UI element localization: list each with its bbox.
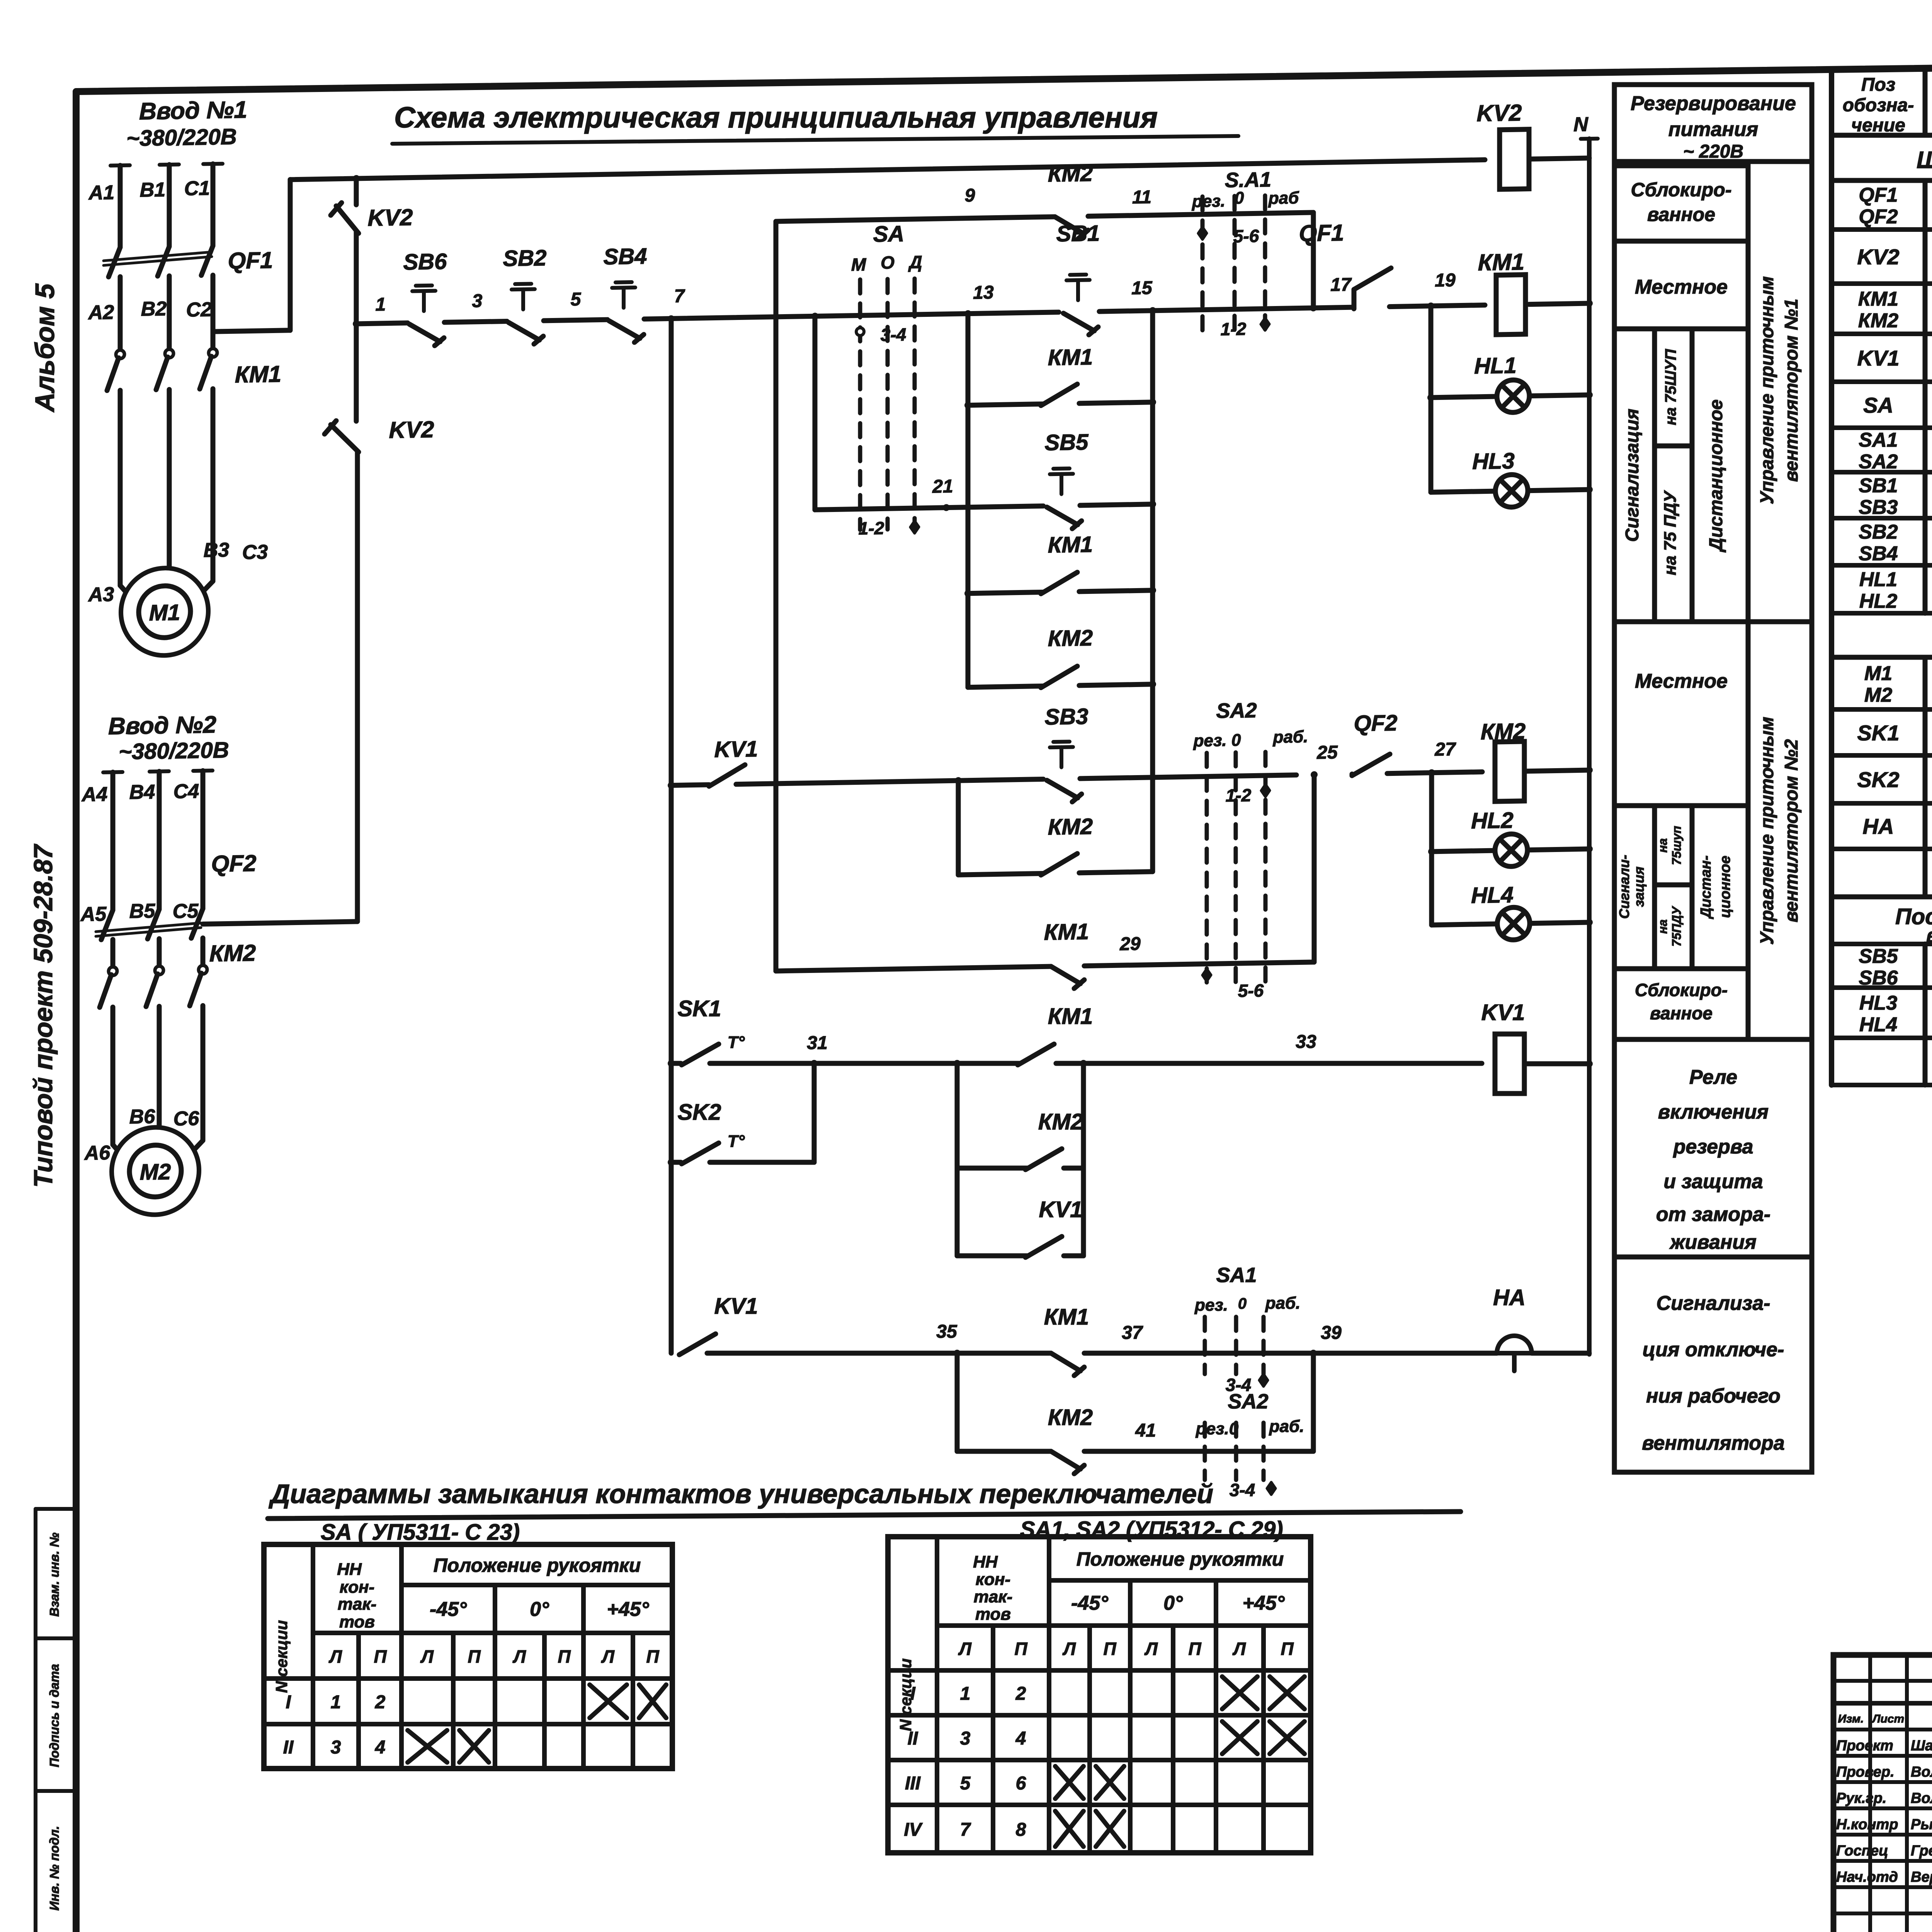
- function box Местное: [1614, 241, 1748, 329]
- wire phase Б4: [150, 769, 169, 774]
- svg-text:33: 33: [1296, 1032, 1316, 1052]
- svg-text:5-6: 5-6: [1238, 980, 1264, 1001]
- svg-text:О: О: [881, 252, 895, 273]
- contactor KM1 main contacts: [116, 350, 124, 359]
- svg-text:1-2: 1-2: [859, 518, 884, 538]
- wire HL3 rung: [1431, 491, 1495, 492]
- wire vertical from node 13: [966, 314, 971, 687]
- svg-text:Изм.: Изм.: [1838, 1713, 1864, 1725]
- function box на 75ПДУ 2: [1655, 885, 1692, 969]
- parts row KV2: [1832, 281, 1932, 286]
- svg-text:В2: В2: [141, 298, 167, 320]
- svg-text:тов: тов: [339, 1612, 375, 1631]
- svg-text:21: 21: [932, 476, 953, 497]
- svg-text:КМ1: КМ1: [1048, 344, 1093, 370]
- svg-text:Сигнализа-: Сигнализа-: [1656, 1292, 1770, 1315]
- svg-text:В4: В4: [129, 781, 155, 804]
- svg-text:KV2: KV2: [368, 204, 413, 231]
- svg-text:А4: А4: [81, 783, 108, 806]
- coil KV1: [1495, 1034, 1524, 1094]
- svg-text:KV2: KV2: [1477, 100, 1522, 126]
- wires to motor M2: [111, 1007, 116, 1145]
- svg-text:QF2: QF2: [1859, 206, 1898, 228]
- contact KM1: [1051, 1353, 1080, 1371]
- svg-text:7: 7: [674, 286, 685, 306]
- svg-text:С1: С1: [184, 177, 210, 200]
- svg-text:КМ2: КМ2: [209, 940, 256, 966]
- svg-text:Госпец: Госпец: [1836, 1843, 1888, 1859]
- svg-text:KV1: KV1: [714, 736, 758, 762]
- breaker QF2 crossbar: [96, 928, 201, 937]
- svg-text:вентилятором №1: вентилятором №1: [1781, 299, 1802, 482]
- svg-text:HL2: HL2: [1859, 590, 1897, 612]
- pushbutton SB6: [409, 323, 440, 342]
- svg-text:3: 3: [331, 1737, 341, 1758]
- svg-text:КМ2: КМ2: [1038, 1109, 1083, 1134]
- svg-text:1: 1: [376, 294, 386, 315]
- svg-text:KV1: KV1: [1039, 1197, 1083, 1222]
- parts row SВ1/SВ3: [1832, 516, 1932, 520]
- svg-text:Альбом 5: Альбом 5: [30, 283, 60, 413]
- svg-text:резерва: резерва: [1673, 1136, 1753, 1158]
- svg-text:Сигнали-: Сигнали-: [1616, 855, 1632, 919]
- svg-text:SВ2: SВ2: [1859, 521, 1898, 543]
- svg-text:вентилятором №2: вентилятором №2: [1781, 739, 1802, 922]
- svg-text:рез.: рез.: [1194, 1296, 1228, 1315]
- svg-text:SK2: SK2: [1857, 767, 1900, 792]
- parts row SK1: [1832, 753, 1932, 758]
- svg-text:П: П: [468, 1646, 481, 1667]
- svg-text:Л: Л: [1232, 1639, 1246, 1659]
- wire phase В5: [201, 938, 206, 966]
- svg-text:0°: 0°: [530, 1598, 549, 1621]
- svg-text:~380/220В: ~380/220В: [126, 124, 236, 151]
- wire left vertical (node 7 down): [669, 318, 674, 1353]
- svg-text:Волкова: Волкова: [1911, 1764, 1932, 1780]
- wire rung 41 drop: [955, 1353, 960, 1451]
- wire main control rail: [356, 323, 408, 324]
- svg-text:Типовой проект 509-28.87: Типовой проект 509-28.87: [29, 844, 58, 1188]
- contact KV1: [1026, 1236, 1062, 1257]
- wire reserve feed to C5: [203, 922, 357, 924]
- parts row HL1/HL2: [1832, 611, 1932, 616]
- svg-text:так-: так-: [974, 1587, 1013, 1606]
- svg-text:П: П: [1188, 1639, 1201, 1659]
- contact QF2 (aux): [1311, 771, 1318, 778]
- svg-text:HL3: HL3: [1472, 448, 1515, 474]
- svg-text:Л: Л: [420, 1646, 434, 1667]
- title block rows: [1833, 1701, 1932, 1706]
- svg-text:HL2: HL2: [1471, 808, 1514, 833]
- svg-text:так-: так-: [338, 1595, 377, 1614]
- svg-text:Нач.отд: Нач.отд: [1836, 1869, 1898, 1885]
- svg-text:П: П: [1281, 1639, 1294, 1659]
- parts row KV1: [1832, 379, 1932, 384]
- function box на 75 ПДУ: [1655, 446, 1692, 622]
- wire rung KV1d: [957, 1253, 1028, 1259]
- wire node19 lamp branch: [1429, 306, 1434, 492]
- wire phase В2: [211, 275, 216, 349]
- pushbutton SB4: [609, 320, 640, 339]
- svg-text:А5: А5: [80, 903, 107, 926]
- svg-text:раб.: раб.: [1265, 1294, 1301, 1313]
- svg-text:SВ2: SВ2: [503, 245, 547, 271]
- wire bus to N: [1529, 158, 1589, 159]
- parts table 2 column lines: [1923, 944, 1928, 1085]
- wire rung KM1b: [968, 592, 1043, 593]
- wire phase Б1: [160, 163, 179, 167]
- contactor KM2 main contacts: [109, 967, 117, 975]
- wire phase А5: [111, 939, 116, 967]
- function box Реле включения резерва: [1614, 1039, 1812, 1257]
- svg-text:SА1: SА1: [1859, 429, 1898, 451]
- svg-text:В5: В5: [129, 900, 156, 923]
- svg-text:SА ( УП5311- С 23): SА ( УП5311- С 23): [321, 1520, 520, 1545]
- svg-text:31: 31: [807, 1033, 827, 1053]
- switch SA1 dashed lines (lower): [1203, 1317, 1207, 1374]
- wire phase Б2: [167, 276, 172, 349]
- wire bracket to rail 21: [813, 316, 818, 510]
- node N: [1581, 137, 1598, 141]
- svg-text:ция отключе-: ция отключе-: [1643, 1338, 1784, 1361]
- contact KM2: [1055, 216, 1084, 235]
- switch SA2 dashed lines (lower): [1203, 1423, 1207, 1480]
- wire HL2 rung: [1432, 850, 1495, 852]
- svg-text:+45°: +45°: [1242, 1592, 1285, 1614]
- svg-text:А3: А3: [88, 583, 114, 606]
- wire vertical SB3 bracket: [956, 781, 961, 875]
- svg-text:рез. 0: рез. 0: [1193, 731, 1241, 750]
- svg-text:39: 39: [1321, 1323, 1342, 1343]
- svg-text:кон-: кон-: [976, 1570, 1010, 1589]
- svg-text:SА2: SА2: [1228, 1390, 1268, 1413]
- svg-text:П: П: [374, 1646, 387, 1667]
- svg-text:от замора-: от замора-: [1656, 1203, 1770, 1226]
- svg-text:SА1: SА1: [1216, 1264, 1257, 1287]
- svg-text:SА2: SА2: [1216, 699, 1257, 723]
- wire vertical right (15 down): [1150, 311, 1155, 872]
- svg-text:0: 0: [1235, 189, 1244, 207]
- svg-text:9: 9: [965, 185, 975, 206]
- wire HL4 rung: [1432, 924, 1497, 925]
- svg-text:N: N: [1573, 113, 1588, 136]
- diagram table SA1-SA2: [888, 1537, 1311, 1853]
- function box на 75ШУП: [1655, 329, 1692, 446]
- svg-text:5: 5: [960, 1773, 971, 1794]
- svg-text:КМ1: КМ1: [1858, 288, 1898, 310]
- function box на 75ШУП 2: [1655, 806, 1692, 885]
- wire phase А2: [118, 277, 123, 350]
- wire upper bus: [290, 160, 1485, 180]
- parts table 2 Пост 75 ПДУ: [1832, 895, 1932, 900]
- svg-text:Н.контр: Н.контр: [1836, 1816, 1898, 1833]
- svg-text:QF2: QF2: [211, 850, 257, 877]
- svg-text:Дистан-: Дистан-: [1698, 855, 1714, 919]
- parts row М1/М2: [1832, 707, 1932, 712]
- svg-text:-45°: -45°: [1071, 1592, 1109, 1614]
- diagram table SA: [264, 1544, 672, 1769]
- pushbutton SB2: [509, 322, 539, 340]
- parts row HL3/HL4: [1832, 1036, 1932, 1040]
- svg-text:KV1: KV1: [1857, 346, 1900, 370]
- function box Сигнализация отключения: [1614, 1257, 1812, 1472]
- wire rung 31-33: [671, 1061, 681, 1066]
- svg-text:Рыбаковский: Рыбаковский: [1911, 1816, 1932, 1833]
- svg-text:Подпись и дата: Подпись и дата: [47, 1664, 61, 1767]
- svg-text:Положение рукоятки: Положение рукоятки: [1077, 1548, 1284, 1570]
- svg-text:М1: М1: [1864, 662, 1892, 685]
- svg-text:SВ3: SВ3: [1045, 704, 1088, 730]
- svg-text:13: 13: [973, 282, 994, 303]
- frame top border: [76, 59, 1932, 92]
- svg-text:рез.: рез.: [1192, 192, 1225, 211]
- svg-text:1-2: 1-2: [1226, 785, 1252, 806]
- svg-text:П: П: [558, 1646, 571, 1667]
- svg-text:Сигнализация: Сигнализация: [1622, 409, 1643, 542]
- contact KM1: [1018, 1044, 1054, 1065]
- function box Сблокированное: [1614, 166, 1748, 241]
- svg-text:КМ2: КМ2: [1858, 310, 1898, 332]
- svg-text:41: 41: [1135, 1420, 1156, 1441]
- wire neutral N vertical (lower): [1587, 927, 1592, 1354]
- svg-text:29: 29: [1119, 934, 1141, 954]
- svg-text:ния рабочего: ния рабочего: [1646, 1385, 1781, 1407]
- svg-text:КМ1: КМ1: [1048, 1004, 1093, 1029]
- svg-text:0: 0: [1238, 1295, 1247, 1312]
- lamp HL3: [1495, 474, 1528, 507]
- svg-text:ванное: ванное: [1647, 204, 1715, 225]
- svg-text:на: на: [1656, 838, 1670, 852]
- coil KM1: [1496, 275, 1526, 335]
- svg-text:П: П: [646, 1646, 659, 1667]
- parts row SВ2/SВ4: [1832, 563, 1932, 568]
- svg-text:11: 11: [1132, 187, 1151, 208]
- svg-text:Управление приточным: Управление приточным: [1757, 276, 1777, 504]
- SA1 mark 5-6: [1198, 227, 1207, 239]
- svg-text:QF2: QF2: [1354, 710, 1398, 736]
- svg-text:С4: С4: [173, 780, 199, 803]
- svg-text:Гребенский: Гребенский: [1911, 1843, 1932, 1859]
- svg-text:4: 4: [1015, 1728, 1026, 1749]
- svg-text:HL1: HL1: [1859, 568, 1897, 591]
- svg-text:раб.: раб.: [1273, 727, 1308, 747]
- wire 25 riser: [1312, 775, 1317, 962]
- margin stamp boxes: [34, 1509, 37, 1932]
- svg-text:8: 8: [1016, 1820, 1026, 1840]
- svg-text:обозна-: обозна-: [1843, 95, 1914, 116]
- svg-text:Инв. № подл.: Инв. № подл.: [47, 1826, 61, 1910]
- svg-text:Дистанционное: Дистанционное: [1706, 400, 1726, 553]
- svg-text:HL3: HL3: [1859, 992, 1897, 1014]
- svg-text:Л: Л: [1062, 1639, 1076, 1659]
- parts table outer: [1832, 65, 1932, 70]
- svg-text:HL4: HL4: [1471, 882, 1514, 908]
- svg-text:15: 15: [1131, 278, 1153, 299]
- svg-text:Сблокиро-: Сблокиро-: [1631, 179, 1731, 201]
- svg-text:А2: А2: [88, 301, 114, 324]
- svg-text:6: 6: [1016, 1773, 1026, 1794]
- contact KV1 (lower): [679, 1334, 716, 1355]
- svg-text:М2: М2: [140, 1159, 171, 1185]
- parts row SА1/SА2: [1832, 470, 1932, 474]
- switch SA2 dashed lines (upper): [1205, 753, 1209, 986]
- parts row QF1/QF2: [1832, 227, 1932, 232]
- svg-text:П: П: [1014, 1639, 1027, 1659]
- svg-text:Лист: Лист: [1872, 1713, 1904, 1725]
- svg-text:SА2: SА2: [1859, 451, 1898, 473]
- parts row SK2: [1832, 801, 1932, 806]
- contact KM2: [1026, 1149, 1062, 1170]
- svg-text:II: II: [908, 1728, 918, 1749]
- wire vertical bus (rung9/rail/SB3/29): [774, 221, 779, 971]
- svg-text:Проект: Проект: [1836, 1738, 1893, 1754]
- svg-text:SK1: SK1: [1857, 721, 1900, 745]
- svg-text:KV1: KV1: [1481, 1000, 1525, 1025]
- svg-text:ционное: ционное: [1717, 855, 1733, 918]
- svg-text:1: 1: [960, 1684, 971, 1704]
- contact KV1: [709, 765, 745, 786]
- svg-text:М1: М1: [149, 600, 180, 626]
- breaker QF1 crossbar: [104, 257, 212, 265]
- svg-text:SВ5: SВ5: [1045, 430, 1089, 456]
- svg-text:НН: НН: [973, 1553, 998, 1571]
- svg-text:М: М: [851, 254, 867, 275]
- svg-text:HL1: HL1: [1474, 353, 1517, 379]
- svg-text:Шапошников: Шапошников: [1911, 1738, 1932, 1754]
- svg-text:зация: зация: [1631, 867, 1647, 907]
- wire neutral N vertical (upper): [1587, 139, 1592, 946]
- motor M1: [121, 567, 208, 656]
- wire rung KM2b: [958, 873, 1043, 875]
- coil KV2: [1500, 129, 1529, 189]
- svg-text:SВ6: SВ6: [1859, 967, 1898, 989]
- function box Управление вентилятором №2: [1748, 622, 1812, 1039]
- svg-text:1-2: 1-2: [1221, 319, 1247, 339]
- svg-text:Резервирование: Резервирование: [1631, 92, 1796, 115]
- svg-text:С2: С2: [186, 298, 212, 321]
- svg-text:Л: Л: [1144, 1639, 1158, 1659]
- svg-text:Поз: Поз: [1861, 75, 1895, 95]
- svg-text:7: 7: [960, 1820, 971, 1840]
- switch SA1 dashed lines (upper): [1201, 197, 1205, 332]
- function box Сблокированное 2: [1614, 969, 1748, 1039]
- svg-text:Сблокиро-: Сблокиро-: [1635, 980, 1728, 1000]
- SA position mark 3-4: [856, 328, 864, 335]
- wire rung 41: [957, 1449, 1051, 1454]
- svg-text:2: 2: [1015, 1684, 1026, 1704]
- svg-text:II: II: [283, 1737, 294, 1758]
- svg-text:НА: НА: [1863, 814, 1894, 838]
- svg-text:S.А1: S.А1: [1225, 168, 1271, 192]
- svg-text:-45°: -45°: [430, 1598, 467, 1621]
- svg-text:КМ1: КМ1: [235, 361, 281, 388]
- svg-text:тов: тов: [975, 1605, 1011, 1624]
- svg-text:KV2: KV2: [389, 417, 434, 443]
- wire rung SB3/23: [671, 785, 709, 786]
- svg-text:М2: М2: [1864, 684, 1892, 706]
- parts row SА: [1832, 425, 1932, 430]
- lamp HL4: [1497, 907, 1530, 940]
- pushbutton SB3: [1047, 780, 1078, 798]
- svg-text:Положение рукоятки: Положение рукоятки: [434, 1554, 641, 1576]
- wire rung KM2a: [968, 686, 1043, 687]
- svg-text:QF1: QF1: [1859, 184, 1898, 206]
- thermal contact SK1: [682, 1044, 719, 1065]
- wire phase В4: [193, 769, 213, 773]
- svg-text:SВ4: SВ4: [1859, 543, 1898, 565]
- svg-text:Реле: Реле: [1689, 1066, 1737, 1088]
- svg-text:Л: Л: [601, 1646, 615, 1667]
- svg-text:КМ1: КМ1: [1044, 1304, 1089, 1330]
- svg-text:на: на: [1656, 919, 1670, 934]
- svg-text:КМ1: КМ1: [1044, 919, 1089, 945]
- svg-text:25: 25: [1316, 742, 1338, 763]
- svg-text:НА: НА: [1493, 1285, 1526, 1310]
- SA2 mark 5-6: [1202, 969, 1211, 981]
- svg-text:Местное: Местное: [1635, 670, 1728, 692]
- wire rung KM1a: [968, 404, 1043, 405]
- pushbutton SB5: [1047, 507, 1078, 525]
- contact KM2: [1041, 854, 1077, 875]
- svg-text:В6: В6: [129, 1105, 156, 1128]
- contact KM1: [1051, 966, 1080, 984]
- svg-text:SА: SА: [1863, 393, 1893, 417]
- wire node27 lamp branch: [1429, 773, 1434, 925]
- svg-text:SВ1: SВ1: [1056, 221, 1100, 247]
- thermal contact SK2: [682, 1143, 719, 1164]
- parts row КМ1/КМ2: [1832, 332, 1932, 336]
- svg-text:С3: С3: [242, 541, 268, 564]
- title block column lines: [1868, 1655, 1872, 1932]
- svg-text:Л: Л: [958, 1639, 972, 1659]
- svg-text:КМ2: КМ2: [1048, 625, 1093, 651]
- svg-text:0°: 0°: [1163, 1592, 1183, 1614]
- svg-text:SВ4: SВ4: [604, 243, 647, 269]
- wire C2 feed to control bus: [213, 330, 290, 332]
- svg-text:17: 17: [1330, 274, 1352, 295]
- function box Дистанционное 2: [1692, 806, 1748, 969]
- svg-text:В1: В1: [140, 179, 165, 201]
- svg-text:живания: живания: [1669, 1231, 1757, 1253]
- frame left border: [73, 92, 80, 1932]
- svg-text:НН: НН: [337, 1560, 362, 1579]
- svg-text:SВ5: SВ5: [1859, 945, 1898, 968]
- contact KM2: [1041, 666, 1077, 688]
- svg-text:~380/220В: ~380/220В: [119, 737, 229, 764]
- wire rung SK2: [671, 1160, 681, 1165]
- svg-text:Шкаф управления 75 ШУП ( в в: Шкаф управления 75 ШУП ( в венткамере): [1917, 147, 1932, 173]
- svg-text:3: 3: [960, 1728, 971, 1749]
- svg-text:SВ1: SВ1: [1859, 474, 1898, 497]
- svg-text:С5: С5: [173, 900, 199, 923]
- svg-text:QF1: QF1: [228, 247, 273, 274]
- function box Местное 2: [1614, 622, 1748, 806]
- wires to motor M1: [118, 390, 123, 585]
- svg-text:А1: А1: [88, 181, 114, 204]
- wire rung 29: [776, 966, 1051, 971]
- svg-text:Местное: Местное: [1635, 276, 1728, 298]
- svg-text:III: III: [905, 1773, 921, 1794]
- svg-text:4: 4: [375, 1737, 386, 1758]
- svg-text:QF1: QF1: [1299, 220, 1344, 247]
- svg-text:С6: С6: [173, 1107, 200, 1130]
- contact KV2 (lower NC): [354, 324, 359, 421]
- svg-text:раб: раб: [1268, 188, 1299, 207]
- breaker contact QF1 (aux): [1354, 268, 1391, 290]
- svg-text:1: 1: [331, 1692, 341, 1713]
- svg-text:Л: Л: [328, 1646, 342, 1667]
- contact KM1: [1041, 572, 1077, 594]
